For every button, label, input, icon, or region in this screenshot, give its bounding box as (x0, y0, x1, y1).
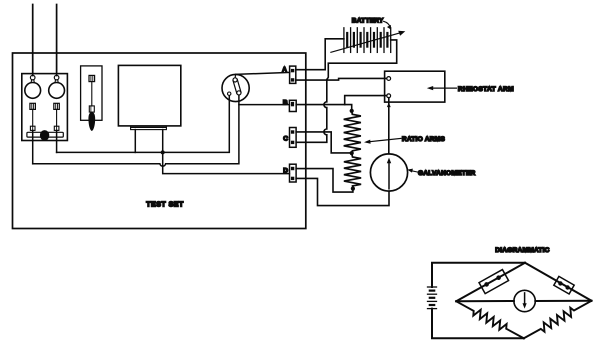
label RATIO ARMS with pointer (364, 136, 445, 144)
wire: left line-in lead from top (32, 5, 34, 76)
wire: blade to terminal B (239, 104, 290, 106)
junction dot: ratio arms bottom (351, 187, 355, 191)
svg-text:RATIO ARMS: RATIO ARMS (402, 136, 445, 143)
galvanometer M1 (370, 154, 407, 191)
junction dot: lead 2 on H1 (161, 150, 165, 154)
svg-text:BATTERY: BATTERY (352, 18, 384, 25)
bridge arm upper-left (unknown resistance) (456, 263, 525, 302)
fuse holder box (81, 66, 102, 120)
wire: rheostat wiper down to galvanometer top (388, 98, 390, 154)
junction dot: ratio arms top (350, 109, 354, 113)
ratio arm resistor R1 (344, 111, 361, 153)
wire: terminal A top to battery (296, 39, 344, 70)
wire: terminal D top to ratio arms bottom (296, 169, 353, 193)
svg-text:GALVANOMETER: GALVANOMETER (418, 170, 476, 177)
battery (diagrammatic) (428, 287, 437, 309)
fuse pull handle (black teardrop) (88, 112, 95, 131)
fuse element (89, 75, 95, 112)
svg-text:RHEOSTAT ARM: RHEOSTAT ARM (458, 86, 514, 93)
unknown resistance box (479, 270, 509, 294)
wire: right line-in lead from top (56, 5, 58, 76)
label GALVANOMETER with pointer (407, 169, 475, 177)
label RHEOSTAT ARM with pointer (427, 86, 514, 93)
unknown resistance contact dots (484, 282, 489, 287)
battery adjustment arrow (331, 31, 405, 53)
wire: terminal A bottom to rheostat top contact (296, 78, 387, 80)
wire: galvanometer to right vertex (535, 300, 591, 302)
wire H2: left post to switch blade (hop under lead 2) (33, 95, 239, 166)
wire: lead 2 lower and H3 to terminal D (163, 152, 290, 173)
wire H1: right post to switch contact (57, 95, 230, 152)
wire: right post drop to H1 (56, 130, 58, 152)
transformer base (131, 126, 167, 129)
transformer box (118, 65, 180, 126)
svg-text:D: D (283, 168, 288, 175)
wire: diagrammatic battery top to bridge top vertex (432, 263, 525, 287)
rheostat contact dots (558, 281, 562, 285)
ratio arm resistor R2 (344, 153, 361, 189)
terminal B (289, 100, 296, 111)
terminal C (290, 128, 297, 148)
bridge arm upper-right (rheostat) (525, 263, 592, 301)
bridge arm lower-right with resistor (524, 301, 592, 339)
wire: node vertical to terminal C bottom (hops over B and C-top wires) (296, 80, 327, 143)
wire: terminal B to ratio arms top (and branch to rheostat bottom contact) (296, 105, 352, 109)
wire: switch top to terminal A (236, 72, 290, 74)
wire: diagrammatic battery bottom to bridge bottom vertex (432, 309, 524, 339)
galvanometer (diagrammatic) (514, 290, 535, 311)
wire: battery right loop down to node (327, 40, 397, 80)
knob (black) on busbar (40, 130, 49, 141)
wire: transformer lead 2 upper (162, 130, 164, 153)
junction dot: ratio arms middle (350, 151, 354, 155)
rheostat top contact (387, 77, 391, 81)
busbar (27, 132, 63, 137)
svg-text:TEST SET: TEST SET (146, 201, 184, 208)
rheostat arm box (385, 71, 445, 102)
rheostat bottom contact (387, 94, 391, 98)
svg-text:C: C (283, 135, 288, 142)
wire: transformer lead 1 (134, 130, 136, 153)
wire: left post drop to H2 (32, 130, 34, 163)
binding post panel (22, 74, 68, 141)
wire: terminal C top to ratio arms middle (296, 132, 350, 153)
svg-text:DIAGRAMMATIC: DIAGRAMMATIC (495, 247, 549, 254)
terminal A (290, 66, 296, 83)
battery BT1 (344, 28, 391, 53)
wire: terminal D bottom to galvanometer bottom (296, 178, 389, 205)
rotary switch S1 (222, 74, 249, 101)
battery label pointer arrow (384, 21, 391, 29)
rheostat box (diagrammatic) (554, 276, 574, 294)
wire: left vertex to galvanometer (456, 300, 514, 302)
test set enclosure (13, 53, 306, 229)
rheostat wiper arrowhead (387, 102, 391, 107)
wire: branch B up to rheostat bottom contact (345, 96, 387, 105)
bridge arm lower-left with resistor (456, 301, 524, 338)
svg-text:A: A (282, 67, 287, 74)
binding post P2 (49, 75, 65, 130)
binding post P1 (25, 75, 41, 130)
svg-text:B: B (283, 99, 288, 106)
terminal D (290, 164, 297, 182)
